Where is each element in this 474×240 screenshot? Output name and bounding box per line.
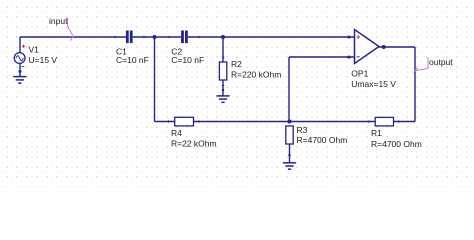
wire feedback vertical to node B [288,57,290,122]
wire op-amp output [379,46,415,48]
svg-text:V1: V1 [29,44,40,54]
resistor R1 [375,117,393,126]
node B junction dot to R2 [221,35,225,39]
C2 pin marks [168,36,201,39]
svg-text:C=10 nF: C=10 nF [116,55,149,65]
svg-text:input: input [49,16,68,26]
svg-text:output: output [429,57,453,67]
V1 plus polarity mark [22,45,25,48]
capacitor C1 [126,31,133,44]
svg-text:R=4700 Ohm: R=4700 Ohm [297,135,348,145]
ground below R2 [216,96,229,102]
wire V1 bottom to ground [19,63,21,76]
wire node A branch down to R4 [154,37,156,122]
node A junction dot [153,35,157,39]
wire top segment V1 to C1 [20,36,126,38]
op-amp OP1 [355,30,380,64]
input label line [68,18,75,41]
V1 pin junction dot [19,70,22,73]
wire C1 to C2 [133,36,182,38]
wire R2 branch top [222,37,224,62]
capacitor C2 [181,31,188,44]
node C junction dot (R3 / feedback) [288,120,292,124]
wire C2 to op-amp + input [188,36,355,38]
C1 pin marks [113,36,145,39]
resistor R2 [219,62,226,80]
ground below V1 [13,77,26,84]
svg-text:R3: R3 [297,125,308,135]
wire bottom feedback rail [155,121,416,123]
R4 pin marks [167,120,201,123]
wire op-amp minus input [289,56,355,58]
svg-text:R=220 kOhm: R=220 kOhm [231,69,281,79]
OP1 output junction dot [382,45,386,49]
R1 pin marks [367,120,400,123]
svg-text:U=15 V: U=15 V [29,55,58,65]
wire R2 bottom to ground [222,80,224,96]
OP1 minus input mark [357,56,360,58]
svg-text:R=4700 Ohm: R=4700 Ohm [371,139,422,149]
svg-text:C=10 nF: C=10 nF [171,55,204,65]
wire output vertical [414,47,416,122]
resistor R4 [175,117,194,126]
output label line [414,58,429,73]
R2 pin marks [222,57,225,91]
svg-text:Umax=15 V: Umax=15 V [351,79,396,89]
svg-text:OP1: OP1 [351,68,368,78]
ground below R3 [283,163,296,169]
wire R3 stem to ground [289,144,291,163]
OP1 input pin dots [348,36,351,59]
svg-text:R=22 kOhm: R=22 kOhm [171,139,217,149]
svg-text:R2: R2 [231,59,242,69]
R3 ground pin mark [288,154,290,156]
resistor R3 [286,126,293,144]
svg-text:R1: R1 [371,128,382,138]
wire V1 top pin [19,37,21,53]
OP1 plus input mark [357,35,360,38]
voltage source V1 [14,53,25,64]
svg-text:R4: R4 [171,128,182,138]
V1 minus polarity mark [22,66,25,68]
